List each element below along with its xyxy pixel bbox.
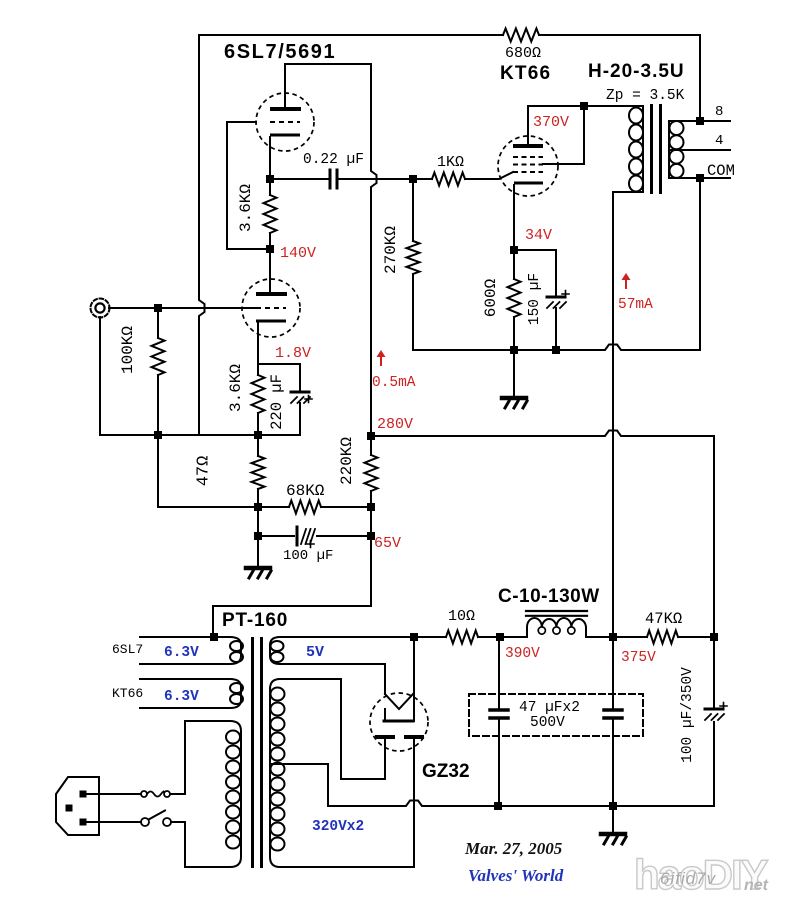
svg-text:Mar. 27, 2005: Mar. 27, 2005 (464, 839, 563, 858)
svg-text:68KΩ: 68KΩ (286, 482, 325, 500)
svg-text:PT-160: PT-160 (222, 610, 288, 631)
svg-text:1KΩ: 1KΩ (437, 154, 464, 171)
svg-text:57mA: 57mA (618, 297, 653, 313)
svg-text:8: 8 (715, 104, 723, 120)
svg-text:0.22 µF: 0.22 µF (303, 152, 364, 168)
svg-text:370V: 370V (533, 114, 569, 131)
svg-text:500V: 500V (530, 715, 565, 731)
svg-text:47 µFx2: 47 µFx2 (519, 700, 580, 716)
svg-text:270KΩ: 270KΩ (382, 226, 400, 274)
svg-text:6SL7/5691: 6SL7/5691 (224, 41, 336, 63)
svg-text:100 µF: 100 µF (283, 548, 333, 564)
svg-text:280V: 280V (377, 416, 413, 433)
svg-text:0.5mA: 0.5mA (372, 375, 416, 391)
svg-text:47KΩ: 47KΩ (645, 610, 682, 628)
svg-text:375V: 375V (621, 650, 656, 666)
svg-text:4: 4 (715, 133, 723, 149)
svg-text:6.3V: 6.3V (164, 689, 199, 705)
svg-text:3.6KΩ: 3.6KΩ (237, 184, 255, 232)
svg-text:COM: COM (707, 162, 735, 180)
svg-text:140V: 140V (280, 245, 316, 262)
svg-text:600Ω: 600Ω (482, 278, 500, 317)
svg-text:net: net (744, 877, 769, 894)
svg-text:1.8V: 1.8V (275, 345, 311, 362)
svg-text:680Ω: 680Ω (505, 45, 541, 62)
svg-text:34V: 34V (525, 227, 552, 244)
svg-text:6ifid7v: 6ifid7v (660, 869, 717, 888)
svg-text:320Vx2: 320Vx2 (312, 819, 364, 835)
svg-text:100 µF/350V: 100 µF/350V (680, 667, 696, 763)
svg-text:KT66: KT66 (112, 686, 143, 701)
svg-text:H-20-3.5U: H-20-3.5U (588, 61, 685, 82)
svg-text:Zp = 3.5K: Zp = 3.5K (606, 88, 685, 104)
svg-text:390V: 390V (505, 646, 540, 662)
svg-text:150 µF: 150 µF (527, 273, 543, 325)
svg-text:220 µF: 220 µF (268, 374, 286, 430)
svg-text:C-10-130W: C-10-130W (498, 586, 600, 607)
svg-text:GZ32: GZ32 (422, 761, 470, 782)
svg-text:KT66: KT66 (500, 63, 551, 84)
svg-text:65V: 65V (374, 535, 401, 552)
svg-text:6.3V: 6.3V (164, 645, 199, 661)
svg-text:Valves' World: Valves' World (468, 866, 564, 885)
svg-text:10Ω: 10Ω (448, 608, 475, 625)
svg-text:220KΩ: 220KΩ (338, 437, 356, 485)
svg-text:3.6KΩ: 3.6KΩ (227, 364, 245, 412)
svg-text:100KΩ: 100KΩ (119, 326, 137, 374)
svg-text:6SL7: 6SL7 (112, 642, 143, 657)
svg-text:5V: 5V (306, 644, 324, 661)
svg-text:47Ω: 47Ω (195, 456, 214, 487)
